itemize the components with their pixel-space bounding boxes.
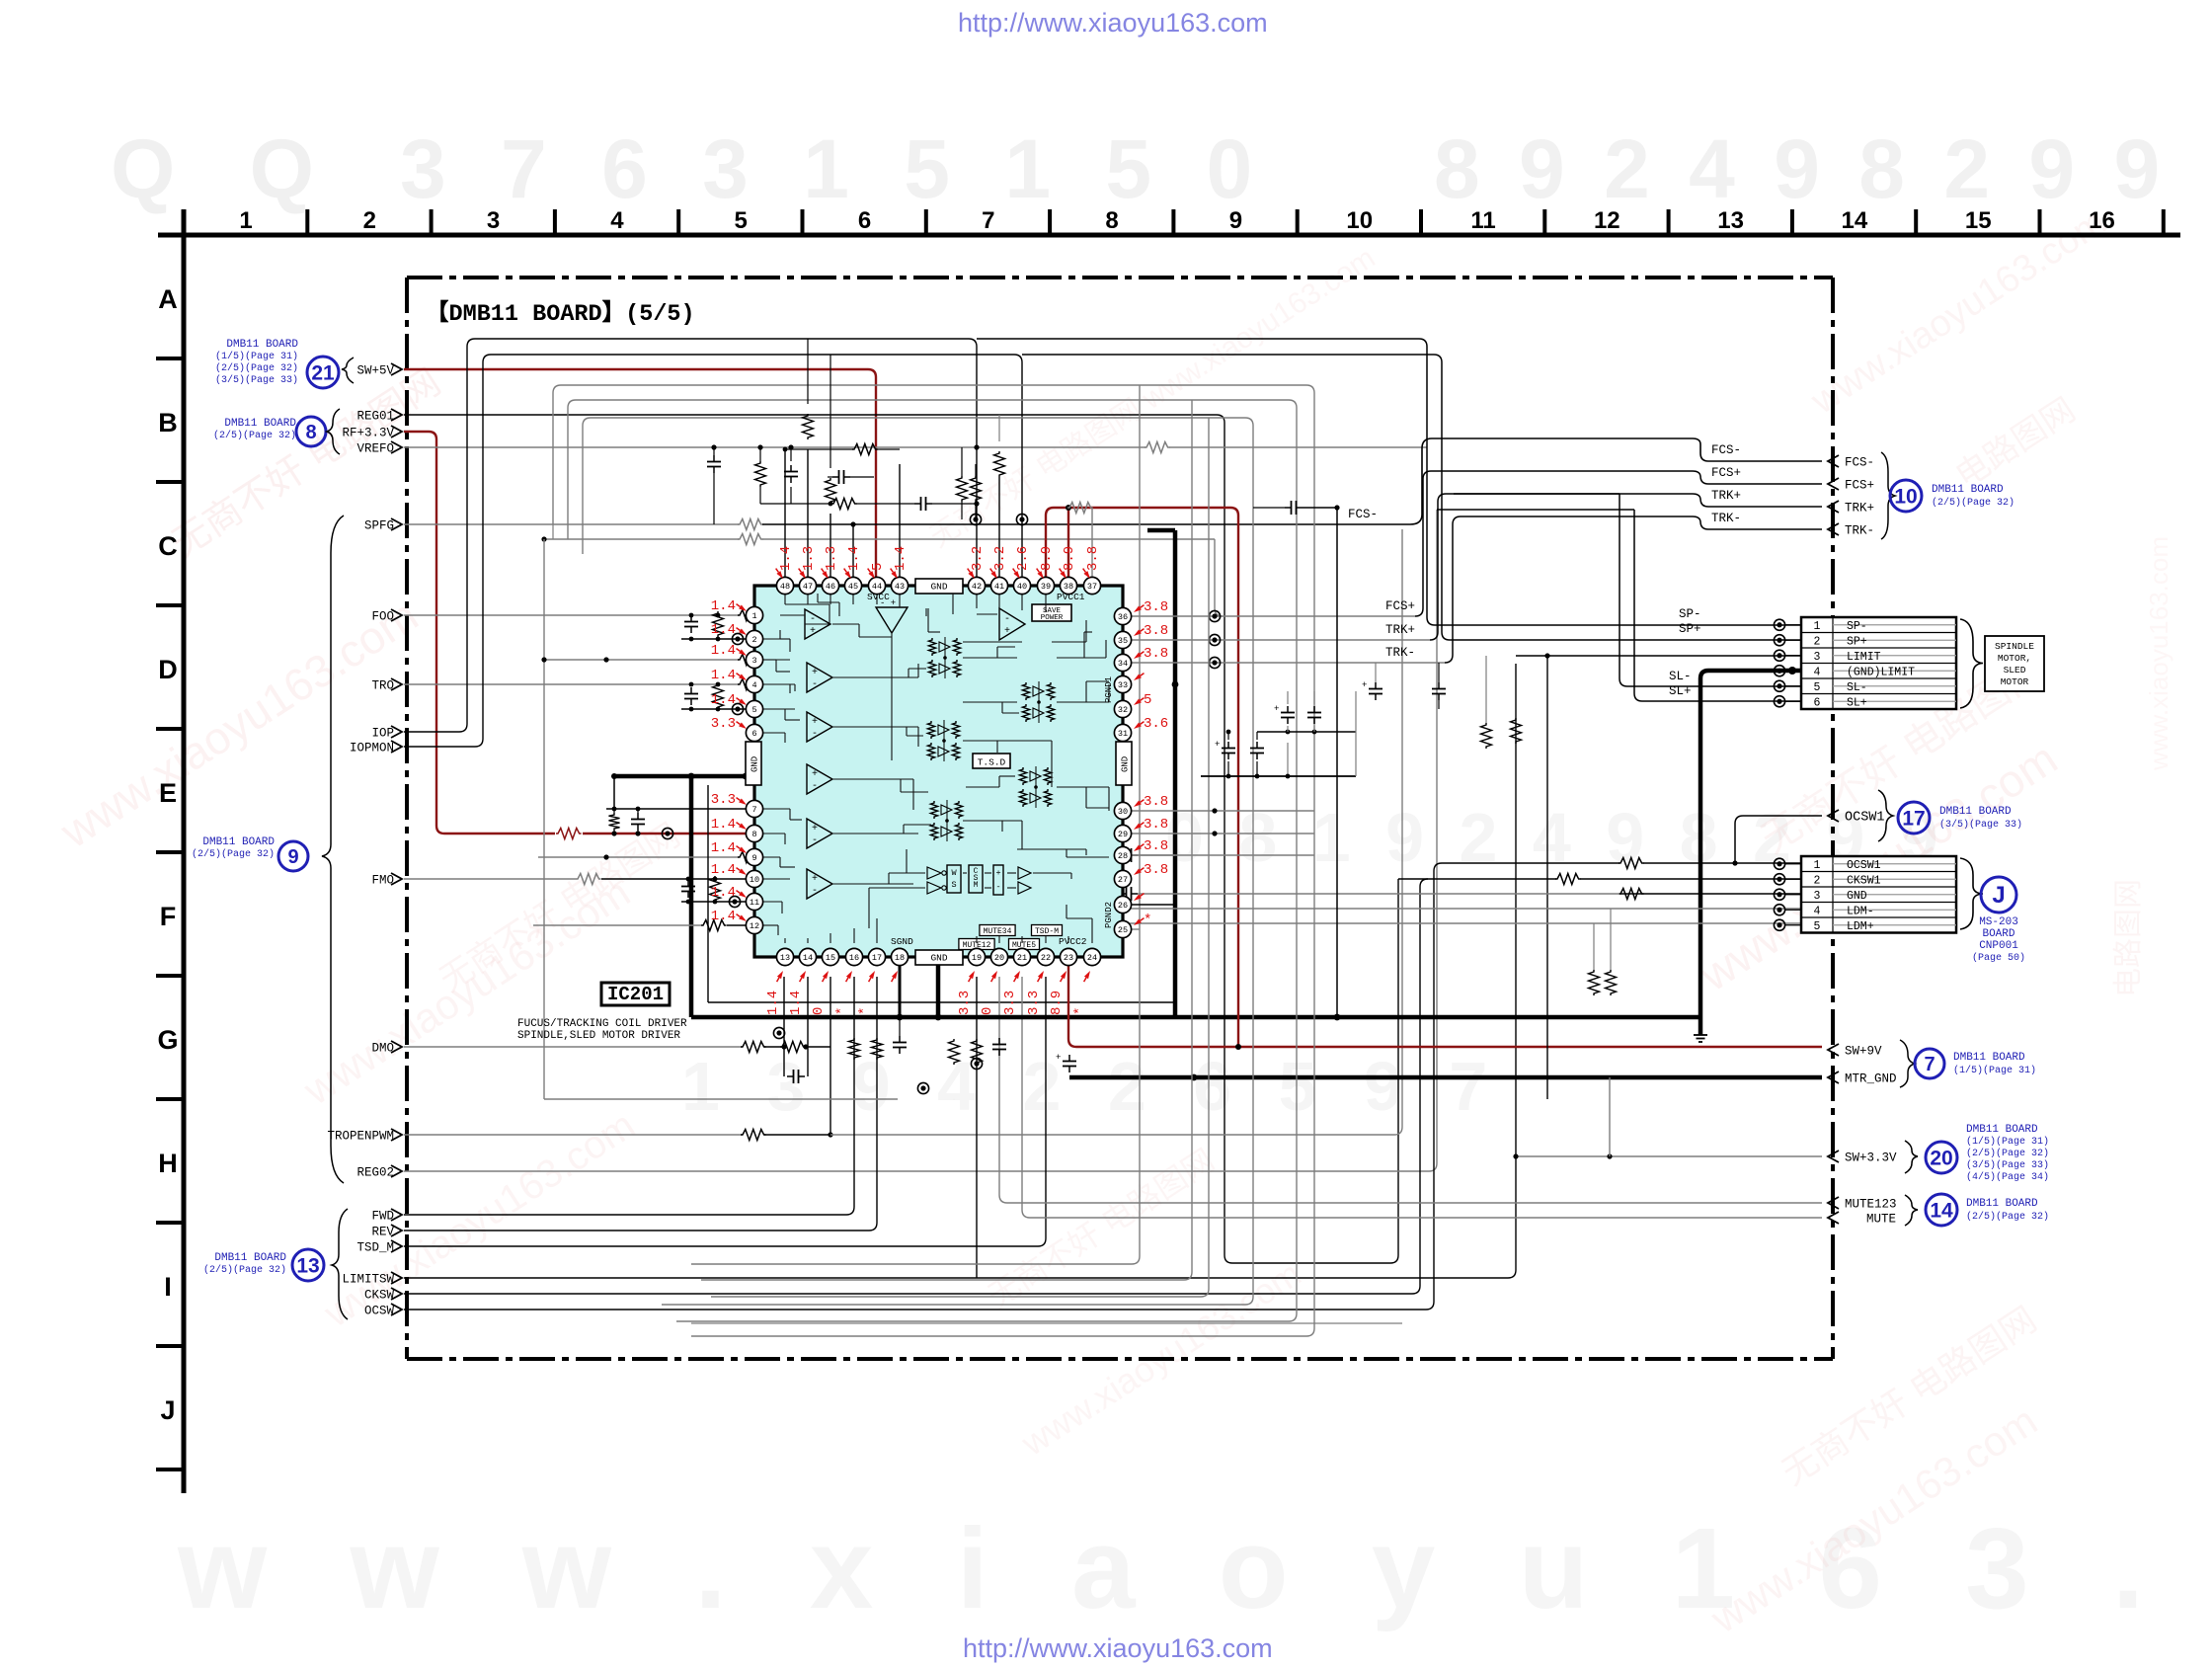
svg-text:46: 46 [826,582,835,592]
svg-text:13: 13 [1717,207,1744,234]
svg-text:(3/5)(Page 33): (3/5)(Page 33) [1966,1159,2049,1171]
svg-text:10: 10 [1894,486,1917,509]
svg-text:1.3: 1.3 [801,546,817,571]
svg-text:SPINDLE: SPINDLE [1995,641,2034,652]
svg-text:2: 2 [1814,635,1821,648]
svg-text:GND: GND [1847,890,1867,903]
svg-text:9: 9 [751,853,756,863]
svg-text:1.4: 1.4 [711,643,736,659]
svg-text:C: C [158,531,178,561]
svg-text:3 7 6 3 1 5 1 5 0: 3 7 6 3 1 5 1 5 0 [400,122,1268,215]
svg-text:+: + [812,717,818,728]
svg-text:CKSW1: CKSW1 [1847,874,1881,887]
svg-text:TRK-: TRK- [1711,512,1741,525]
svg-text:5: 5 [1144,692,1151,708]
svg-text:http://www.xiaoyu163.com: http://www.xiaoyu163.com [963,1633,1273,1663]
svg-text:4: 4 [1814,666,1821,678]
svg-text:SLED: SLED [2004,665,2026,675]
svg-text:0: 0 [980,1007,995,1015]
svg-text:41: 41 [994,582,1004,592]
svg-text:LDM+: LDM+ [1847,920,1874,933]
svg-text:(2/5)(Page 32): (2/5)(Page 32) [203,1264,286,1276]
svg-text:7: 7 [982,207,994,234]
svg-text:3.3: 3.3 [711,792,736,808]
svg-text:DMB11 BOARD: DMB11 BOARD [1953,1052,2025,1064]
svg-text:W: W [951,868,957,878]
svg-text:8: 8 [305,422,316,443]
svg-text:44: 44 [872,582,882,592]
svg-text:DMO: DMO [371,1042,394,1056]
svg-text:1.3: 1.3 [824,546,839,571]
svg-text:PGND2: PGND2 [1104,902,1114,928]
svg-text:DMB11 BOARD: DMB11 BOARD [202,836,275,848]
svg-text:39: 39 [1041,582,1051,592]
svg-text:3.2: 3.2 [992,546,1008,571]
svg-text:13: 13 [296,1255,319,1278]
svg-text:11: 11 [750,898,759,908]
svg-text:(1/5)(Page 31): (1/5)(Page 31) [1966,1136,2049,1148]
svg-text:+: + [1056,1053,1061,1063]
svg-text:23: 23 [1064,953,1073,963]
svg-text:21: 21 [311,362,335,385]
svg-text:4: 4 [610,207,624,234]
svg-text:+: + [1274,704,1279,714]
svg-text:3: 3 [1814,651,1821,664]
svg-text:TRO: TRO [371,679,394,693]
svg-text:OCSW1: OCSW1 [1847,859,1881,872]
svg-text:*: * [834,1007,850,1015]
svg-text:DMB11 BOARD: DMB11 BOARD [1966,1124,2038,1136]
svg-text:FCS+: FCS+ [1711,466,1741,480]
svg-text:DMB11 BOARD: DMB11 BOARD [1939,806,2012,818]
svg-text:1.4: 1.4 [711,692,736,708]
svg-text:FCS+: FCS+ [1385,599,1415,613]
svg-text:1.4: 1.4 [778,546,794,571]
svg-text:MTR_GND: MTR_GND [1845,1072,1897,1086]
svg-text:TRK+: TRK+ [1845,502,1874,516]
svg-text:4: 4 [751,680,756,690]
svg-text:2: 2 [363,207,376,234]
svg-text:-: - [812,781,818,792]
svg-text:8.9: 8.9 [1062,546,1077,571]
svg-text:1: 1 [751,611,756,621]
svg-text:10: 10 [1346,207,1373,234]
svg-text:27: 27 [1118,875,1128,885]
svg-text:1: 1 [1814,620,1821,633]
svg-text:S: S [951,880,956,890]
svg-text:+: + [1215,740,1220,750]
svg-text:9: 9 [287,846,298,868]
svg-text:+: + [810,626,816,637]
svg-text:14: 14 [1930,1200,1953,1223]
svg-text:4: 4 [1814,905,1821,917]
svg-text:SPFG: SPFG [364,519,394,533]
svg-text:-: - [812,679,818,690]
svg-text:3.8: 3.8 [1144,646,1168,662]
svg-text:SL-: SL- [1847,681,1867,694]
svg-text:(2/5)(Page 32): (2/5)(Page 32) [1932,497,2014,509]
svg-text:+: + [1004,626,1010,637]
svg-text:SP+: SP+ [1679,622,1701,636]
svg-text:6: 6 [1814,696,1821,709]
svg-text:DMB11 BOARD: DMB11 BOARD [1966,1198,2038,1210]
svg-text:3.3: 3.3 [711,716,736,732]
svg-text:FOO: FOO [371,610,394,624]
svg-text:-: - [995,882,1000,892]
svg-text:40: 40 [1017,582,1027,592]
svg-text:SW+3.3V: SW+3.3V [1845,1152,1897,1165]
svg-text:(1/5)(Page 31): (1/5)(Page 31) [1953,1065,2036,1076]
svg-text:REV: REV [371,1226,394,1239]
svg-text:29: 29 [1118,830,1128,839]
svg-text:G: G [157,1025,178,1055]
svg-text:LIMITSW: LIMITSW [342,1273,394,1287]
svg-text:3.2: 3.2 [970,546,986,571]
svg-text:5: 5 [735,207,748,234]
svg-text:5: 5 [1814,681,1821,694]
svg-text:IOP: IOP [371,727,394,741]
svg-text:+: + [812,769,818,780]
svg-text:GND: GND [750,756,760,772]
svg-text:IC201: IC201 [607,984,664,1005]
svg-text:12: 12 [750,921,759,931]
svg-text:3.3: 3.3 [1002,991,1018,1015]
svg-text:17: 17 [872,953,882,963]
svg-text:*: * [857,1007,873,1015]
svg-text:14: 14 [803,953,813,963]
svg-text:7: 7 [1924,1054,1935,1075]
svg-text:【DMB11 BOARD】(5/5): 【DMB11 BOARD】(5/5) [426,299,695,328]
svg-text:LDM-: LDM- [1847,905,1874,917]
svg-text:SGND: SGND [891,936,913,947]
svg-text:SPINDLE,SLED MOTOR DRIVER: SPINDLE,SLED MOTOR DRIVER [517,1030,680,1042]
svg-text:3.3: 3.3 [957,991,973,1015]
svg-text:(2/5)(Page 32): (2/5)(Page 32) [215,362,298,374]
svg-text:16: 16 [849,953,859,963]
svg-text:6: 6 [751,729,756,739]
svg-text:37: 37 [1087,582,1097,592]
svg-text:-: - [810,614,816,625]
svg-text:-: - [812,886,818,897]
svg-text:I: I [164,1272,172,1302]
svg-text:DMB11 BOARD: DMB11 BOARD [1932,484,2004,496]
svg-text:20: 20 [994,953,1004,963]
svg-text:+: + [812,824,818,834]
svg-text:1: 1 [1814,859,1821,872]
svg-text:10: 10 [750,875,759,885]
svg-text:30: 30 [1118,807,1128,817]
svg-text:16: 16 [2089,207,2115,234]
svg-text:(3/5)(Page 33): (3/5)(Page 33) [215,374,298,386]
svg-text:LIMIT: LIMIT [1847,651,1881,664]
svg-text:T.S.D: T.S.D [978,757,1006,768]
svg-text:43: 43 [895,582,905,592]
svg-text:1.4: 1.4 [711,840,736,856]
svg-text:19: 19 [972,953,982,963]
svg-text:OCSW1: OCSW1 [1845,811,1885,826]
svg-text:8: 8 [1105,207,1118,234]
svg-text:F: F [160,902,177,931]
svg-text:3: 3 [751,656,756,666]
svg-text:21: 21 [1017,953,1027,963]
svg-text:*: * [1144,913,1151,928]
svg-text:SW+9V: SW+9V [1845,1045,1882,1059]
svg-text:24: 24 [1087,953,1097,963]
svg-text:DMB11 BOARD: DMB11 BOARD [214,1252,286,1264]
svg-text:18: 18 [895,953,905,963]
svg-text:CNP001: CNP001 [1979,940,2018,952]
svg-text:TROPENPWM: TROPENPWM [327,1130,394,1144]
svg-text:36: 36 [1118,612,1128,622]
svg-text:13: 13 [780,953,790,963]
svg-text:3: 3 [487,207,500,234]
svg-text:MS-203: MS-203 [1979,916,2018,928]
svg-text:DMB11 BOARD: DMB11 BOARD [226,339,298,351]
svg-text:SP+: SP+ [1847,635,1867,648]
svg-text:(2/5)(Page 32): (2/5)(Page 32) [192,848,275,860]
svg-text:GND: GND [930,582,947,593]
svg-text:+: + [812,668,818,678]
svg-text:31: 31 [1118,729,1128,739]
svg-text:FCS-: FCS- [1711,443,1741,457]
svg-text:+: + [995,868,1000,878]
svg-text:3.8: 3.8 [1144,623,1168,639]
svg-text:8: 8 [751,830,756,839]
svg-text:25: 25 [1118,925,1128,935]
svg-text:-: - [812,729,818,740]
svg-text:12: 12 [1594,207,1620,234]
svg-text:1.4: 1.4 [711,622,736,638]
svg-text:32: 32 [1118,705,1128,715]
svg-text:2.6: 2.6 [1015,546,1031,571]
svg-text:1.4: 1.4 [711,817,736,833]
svg-text:www.xiaoyu163.com: www.xiaoyu163.com [2144,536,2173,771]
svg-text:0: 0 [811,1007,827,1015]
svg-text:FCS-: FCS- [1348,508,1378,521]
svg-text:POWER: POWER [1041,614,1064,622]
svg-text:TRK-: TRK- [1385,646,1415,660]
svg-text:8.9: 8.9 [1039,546,1055,571]
svg-text:33: 33 [1118,680,1128,690]
svg-text:26: 26 [1118,901,1128,911]
svg-text:1.4: 1.4 [893,546,908,571]
svg-text:电路图网: 电路图网 [2112,879,2145,997]
svg-text:1.4: 1.4 [765,991,781,1015]
svg-text:FUCUS/TRACKING COIL DRIVER: FUCUS/TRACKING COIL DRIVER [517,1018,687,1030]
svg-text:22: 22 [1041,953,1051,963]
svg-text:38: 38 [1064,582,1073,592]
svg-text:(2/5)(Page 32): (2/5)(Page 32) [213,430,296,441]
svg-text:47: 47 [803,582,813,592]
svg-text:SL-: SL- [1669,670,1692,683]
svg-text:J: J [160,1395,175,1425]
svg-text:http://www.xiaoyu163.com: http://www.xiaoyu163.com [958,8,1268,38]
svg-text:+: + [812,874,818,885]
svg-text:3.3: 3.3 [1026,991,1042,1015]
svg-text:48: 48 [780,582,790,592]
svg-text:5: 5 [1814,920,1821,933]
svg-text:(1/5)(Page 31): (1/5)(Page 31) [215,351,298,362]
svg-text:-: - [1004,614,1010,625]
svg-text:34: 34 [1118,659,1128,669]
svg-text:GND: GND [1121,756,1131,772]
svg-text:3.8: 3.8 [1144,862,1168,878]
svg-text:(GND)LIMIT: (GND)LIMIT [1847,666,1915,678]
svg-text:TSD-M: TSD-M [1035,927,1059,936]
svg-text:OCSW: OCSW [364,1305,395,1318]
svg-text:3.8: 3.8 [1144,817,1168,833]
svg-text:8.9: 8.9 [1049,991,1065,1015]
svg-text:5: 5 [870,563,886,571]
svg-text:BOARD: BOARD [1982,928,2014,940]
svg-text:FCS+: FCS+ [1845,479,1874,493]
svg-text:SP-: SP- [1679,607,1701,621]
svg-text:5: 5 [751,705,756,715]
svg-text:1.4: 1.4 [711,909,736,924]
svg-text:MOTOR: MOTOR [2001,676,2029,687]
svg-text:IOPMON: IOPMON [350,742,394,755]
svg-text:2: 2 [751,635,756,645]
svg-text:3.8: 3.8 [1144,838,1168,854]
svg-text:REG02: REG02 [356,1166,394,1180]
svg-text:1.4: 1.4 [711,885,736,901]
svg-text:3.8: 3.8 [1144,794,1168,810]
svg-text:TRK+: TRK+ [1385,623,1415,637]
svg-text:MUTE34: MUTE34 [984,927,1012,936]
svg-text:TSD_M: TSD_M [356,1241,394,1255]
svg-text:SL+: SL+ [1847,696,1867,709]
svg-text:7: 7 [751,805,756,815]
svg-text:1: 1 [239,207,252,234]
svg-text:1.4: 1.4 [788,991,804,1015]
svg-text:11: 11 [1470,207,1495,234]
svg-text:MOTOR,: MOTOR, [1998,653,2031,664]
svg-text:VREFO: VREFO [356,442,394,456]
svg-text:42: 42 [972,582,982,592]
svg-text:8 9 2 4 9 8 2 9 9: 8 9 2 4 9 8 2 9 9 [1434,122,2168,215]
svg-text:35: 35 [1118,636,1128,646]
svg-text:FMO: FMO [371,874,394,888]
svg-text:PVCC2: PVCC2 [1059,936,1087,947]
svg-text:REG01: REG01 [356,410,394,424]
svg-text:MUTE123: MUTE123 [1845,1198,1897,1212]
svg-text:1 3 9 4 2 2 6 5 9 7: 1 3 9 4 2 2 6 5 9 7 [681,1048,1501,1125]
svg-text:(2/5)(Page 32): (2/5)(Page 32) [1966,1211,2049,1223]
svg-text:9: 9 [1229,207,1242,234]
svg-text:A: A [158,284,178,314]
svg-text:CKSW: CKSW [364,1289,395,1303]
svg-text:D: D [158,655,178,684]
svg-text:SL+: SL+ [1669,684,1692,698]
svg-text:28: 28 [1118,851,1128,861]
svg-text:(Page 50): (Page 50) [1972,952,2025,964]
svg-text:GND: GND [930,953,947,964]
svg-text:M: M [974,881,979,890]
svg-text:14: 14 [1842,207,1868,234]
svg-text:(3/5)(Page 33): (3/5)(Page 33) [1939,819,2022,831]
svg-text:Q Q: Q Q [111,122,340,215]
svg-text:1.4: 1.4 [846,546,862,571]
svg-text:3: 3 [1814,890,1821,903]
svg-text:SW+5V: SW+5V [356,364,394,378]
svg-text:3.8: 3.8 [1144,599,1168,615]
svg-text:TRK-: TRK- [1845,524,1874,538]
svg-text:6: 6 [858,207,871,234]
svg-text:*: * [1072,1007,1088,1015]
svg-text:3.8: 3.8 [1085,546,1101,571]
svg-text:(2/5)(Page 32): (2/5)(Page 32) [1966,1148,2049,1159]
svg-text:TRK+: TRK+ [1711,489,1741,503]
svg-text:1.4: 1.4 [711,668,736,683]
svg-text:+: + [1362,680,1367,690]
svg-text:B: B [158,408,178,437]
svg-text:45: 45 [848,582,858,592]
svg-text:MUTE: MUTE [1866,1213,1896,1227]
svg-text:20: 20 [1930,1148,1952,1170]
svg-text:15: 15 [1965,207,1992,234]
svg-text:1.4: 1.4 [711,598,736,614]
svg-text:-: - [812,835,818,846]
svg-text:J: J [1992,882,2005,909]
svg-text:15: 15 [826,953,835,963]
svg-text:RF+3.3V: RF+3.3V [342,427,394,440]
svg-text:H: H [158,1149,178,1178]
svg-text:FCS-: FCS- [1845,456,1874,470]
svg-text:SP-: SP- [1847,620,1867,633]
svg-text:(4/5)(Page 34): (4/5)(Page 34) [1966,1171,2049,1183]
svg-text:E: E [159,778,177,808]
svg-text:FWD: FWD [371,1210,394,1224]
svg-text:17: 17 [1902,808,1925,831]
svg-text:DMB11 BOARD: DMB11 BOARD [224,418,296,430]
svg-text:2: 2 [1814,874,1821,887]
svg-text:3.6: 3.6 [1144,716,1168,732]
svg-text:1.4: 1.4 [711,862,736,878]
